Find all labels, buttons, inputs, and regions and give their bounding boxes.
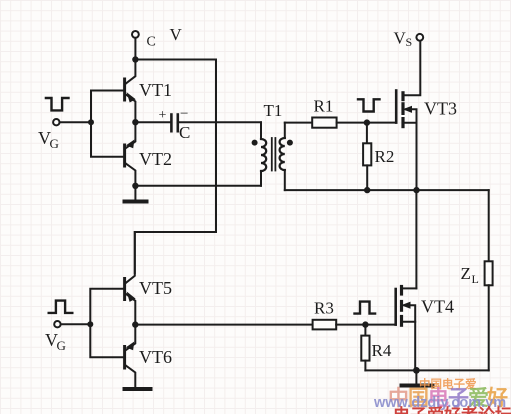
node emitter junction E2 [132, 321, 138, 327]
svg-text:R3: R3 [314, 299, 334, 318]
svg-text:R1: R1 [314, 97, 334, 116]
svg-text:C: C [147, 35, 156, 50]
wire VT4 drain [415, 190, 417, 288]
label R3 [314, 299, 334, 318]
terminal VG1 [53, 119, 59, 125]
svg-text:G: G [50, 136, 59, 151]
label VT5 [139, 278, 172, 298]
label C [179, 123, 190, 142]
transformer T1 secondary winding [280, 123, 285, 191]
resistor R3 [313, 320, 337, 330]
node R2 bottom junction [364, 187, 370, 193]
label - [180, 106, 188, 122]
svg-text:Z: Z [461, 264, 471, 283]
ground (below VT6) [125, 387, 151, 391]
wire ZL branch top [488, 190, 490, 261]
node VT4 gate junction [362, 321, 368, 327]
pulse symbol positive (VT4 gate) [355, 302, 376, 314]
label R2 [375, 147, 395, 166]
transistor VT5 [125, 232, 136, 325]
svg-text:VT1: VT1 [139, 80, 172, 100]
node VC rail junction [132, 56, 138, 62]
watermark bottom red row [393, 405, 511, 414]
label VT2 [139, 149, 172, 169]
svg-text:VT4: VT4 [421, 297, 454, 317]
ground (below VT2) [125, 186, 147, 202]
node VT3 gate junction [364, 119, 370, 125]
svg-text:VT5: VT5 [139, 278, 172, 298]
wire R1 to gate node [337, 122, 367, 124]
svg-text:R4: R4 [372, 341, 392, 360]
wire source rail [285, 189, 489, 191]
pulse symbol negative (VT3 gate) [358, 99, 380, 111]
wire VG2 input [61, 323, 91, 325]
svg-text:C: C [179, 123, 190, 142]
label VS [394, 29, 413, 50]
watermark large colored characters [388, 386, 508, 410]
label V (supply) [170, 25, 183, 44]
ground (below VT4) [402, 370, 433, 385]
watermark row small orange [419, 377, 477, 391]
label VT4 [421, 297, 454, 317]
svg-text:电子爱好者论坛: 电子爱好者论坛 [393, 405, 511, 414]
transistor VT1 [125, 62, 136, 122]
wire R3 to VT4 gate [336, 324, 396, 326]
wire VC rail to VT5 branch [135, 60, 216, 274]
label + [159, 108, 167, 123]
svg-text:VT2: VT2 [139, 149, 172, 169]
transistor VT6 [125, 325, 136, 386]
label VT1 [139, 80, 172, 100]
svg-text:G: G [57, 338, 66, 353]
label T1 [264, 101, 283, 120]
node emitter junction E1 [132, 119, 138, 125]
transformer T1 core [272, 138, 276, 171]
wire bottom rail [365, 369, 488, 371]
node primary phase dot [252, 140, 258, 146]
wire driver output to R3 [135, 324, 312, 326]
wire base bus VT5/VT6 [90, 289, 123, 358]
node VT3 source junction [413, 187, 419, 193]
label VT6 [139, 347, 172, 367]
label R4 [372, 341, 392, 360]
wire VC stem [134, 38, 136, 60]
transistor VT4 (MOSFET) [396, 287, 417, 371]
wire base bus VT1/VT2 [91, 91, 124, 157]
label R1 [314, 97, 334, 116]
wire node to capacitor [135, 121, 170, 123]
node base bus junction [88, 119, 94, 125]
svg-text:+: + [159, 108, 167, 123]
wire capacitor to transformer primary [179, 121, 261, 123]
wire ZL branch bottom [488, 285, 490, 370]
node VT2 collector junction [132, 183, 138, 189]
capacitor C [171, 115, 177, 132]
svg-text:T1: T1 [264, 101, 283, 120]
node secondary phase dot [287, 140, 293, 146]
wire secondary to R1 [285, 122, 312, 124]
watermark URL [373, 395, 506, 411]
label ZL [461, 264, 479, 286]
label VG1 [38, 128, 59, 151]
load ZL [485, 261, 493, 285]
resistor R4 [361, 325, 369, 371]
svg-text:VT3: VT3 [424, 99, 457, 119]
terminal VS [416, 34, 423, 41]
resistor R2 [363, 123, 371, 191]
wire gate node to VT3 [367, 122, 395, 124]
label VG2 [45, 330, 66, 353]
pulse symbol positive (VG2) [49, 301, 73, 313]
svg-text:V: V [170, 25, 183, 44]
svg-text:L: L [472, 272, 479, 286]
transistor VT3 (MOSFET) [396, 41, 420, 190]
wire VG1 input [60, 121, 91, 123]
node VT4 source junction [413, 367, 420, 374]
node base bus junction 2 [87, 321, 93, 327]
terminal VC [132, 31, 139, 38]
svg-text:R2: R2 [375, 147, 395, 166]
pulse symbol negative (VG1) [46, 98, 69, 110]
wire primary return [135, 185, 261, 187]
label c (VC subscript) [147, 35, 156, 50]
label VT3 [424, 99, 457, 119]
transistor VT2 [125, 122, 136, 186]
svg-text:VT6: VT6 [139, 347, 172, 367]
terminal VG2 [54, 321, 60, 327]
resistor R1 [312, 118, 336, 128]
transformer T1 primary winding [261, 122, 266, 186]
svg-text:−: − [180, 106, 188, 122]
svg-text:S: S [406, 35, 413, 49]
